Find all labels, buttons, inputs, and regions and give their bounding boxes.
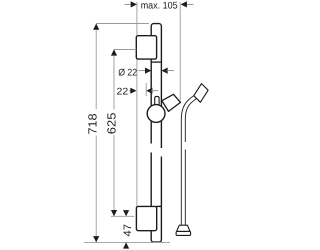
wire max105 tail left bbox=[125, 3, 133, 5]
node hose fitting nut bbox=[194, 84, 208, 103]
node 718 arrow down bbox=[93, 236, 99, 242]
wire bottom reference line bbox=[84, 241, 170, 243]
node dia22 arrow right bbox=[162, 68, 168, 74]
wire 22 tail right bbox=[151, 90, 158, 92]
node max105 arrow left bbox=[131, 1, 137, 7]
svg-text:22: 22 bbox=[117, 86, 129, 97]
svg-text:625: 625 bbox=[104, 112, 118, 134]
wire dia22 tail left bbox=[139, 70, 147, 72]
svg-text:Ø 22: Ø 22 bbox=[118, 67, 137, 78]
node wall bar bbox=[151, 24, 161, 243]
node 47 arrow top bbox=[123, 210, 129, 216]
svg-text:max. 105: max. 105 bbox=[141, 1, 178, 12]
wire 625 top reference line bbox=[114, 49, 136, 51]
node max105 arrow right bbox=[181, 1, 187, 7]
wire 625 dimension line upper bbox=[113, 49, 115, 109]
wire 718 dimension line lower bbox=[95, 136, 97, 243]
wire max105 tail right bbox=[186, 3, 193, 5]
wire bar gap left line bbox=[150, 144, 153, 153]
wire 22 ext line bbox=[145, 83, 147, 96]
wire wall extension line upper bbox=[136, 2, 138, 36]
node top bracket collar bbox=[151, 61, 161, 63]
wire dia22 tail right bbox=[166, 70, 174, 72]
wire 22 tail left bbox=[129, 90, 132, 92]
wire hose curve bbox=[183, 94, 199, 225]
wire 718 top reference line bbox=[96, 23, 149, 25]
svg-text:47: 47 bbox=[122, 224, 134, 236]
node hose end trapezoid bbox=[177, 225, 190, 231]
node 625 arrow up bbox=[111, 49, 117, 55]
wire 718 dimension line upper bbox=[95, 24, 97, 109]
wire middle reference line bbox=[111, 215, 134, 217]
wire bottom bracket edge across bar bbox=[156, 205, 161, 207]
wire max105 extension line right bbox=[179, 2, 181, 101]
node top bracket bbox=[136, 36, 156, 59]
node 22 arrow right bbox=[146, 88, 152, 94]
node 625 arrow down bbox=[111, 210, 117, 216]
wire bar gap right line bbox=[160, 148, 163, 157]
wire 625 dimension line lower bbox=[113, 135, 115, 216]
wire wall extension line lower bbox=[136, 60, 138, 207]
svg-text:718: 718 bbox=[85, 113, 99, 135]
node dia22 arrow left bbox=[145, 68, 151, 74]
node bottom bracket bbox=[136, 206, 156, 230]
node hose end base bbox=[176, 231, 191, 235]
node handshower holder bbox=[162, 94, 181, 111]
node slider knob bbox=[147, 105, 165, 123]
node 47 arrow bottom bbox=[123, 242, 129, 248]
node 22 arrow left bbox=[130, 88, 136, 94]
wire hose gap right line bbox=[184, 142, 186, 150]
node 718 arrow up bbox=[93, 24, 99, 30]
node knob tab bbox=[155, 96, 159, 106]
